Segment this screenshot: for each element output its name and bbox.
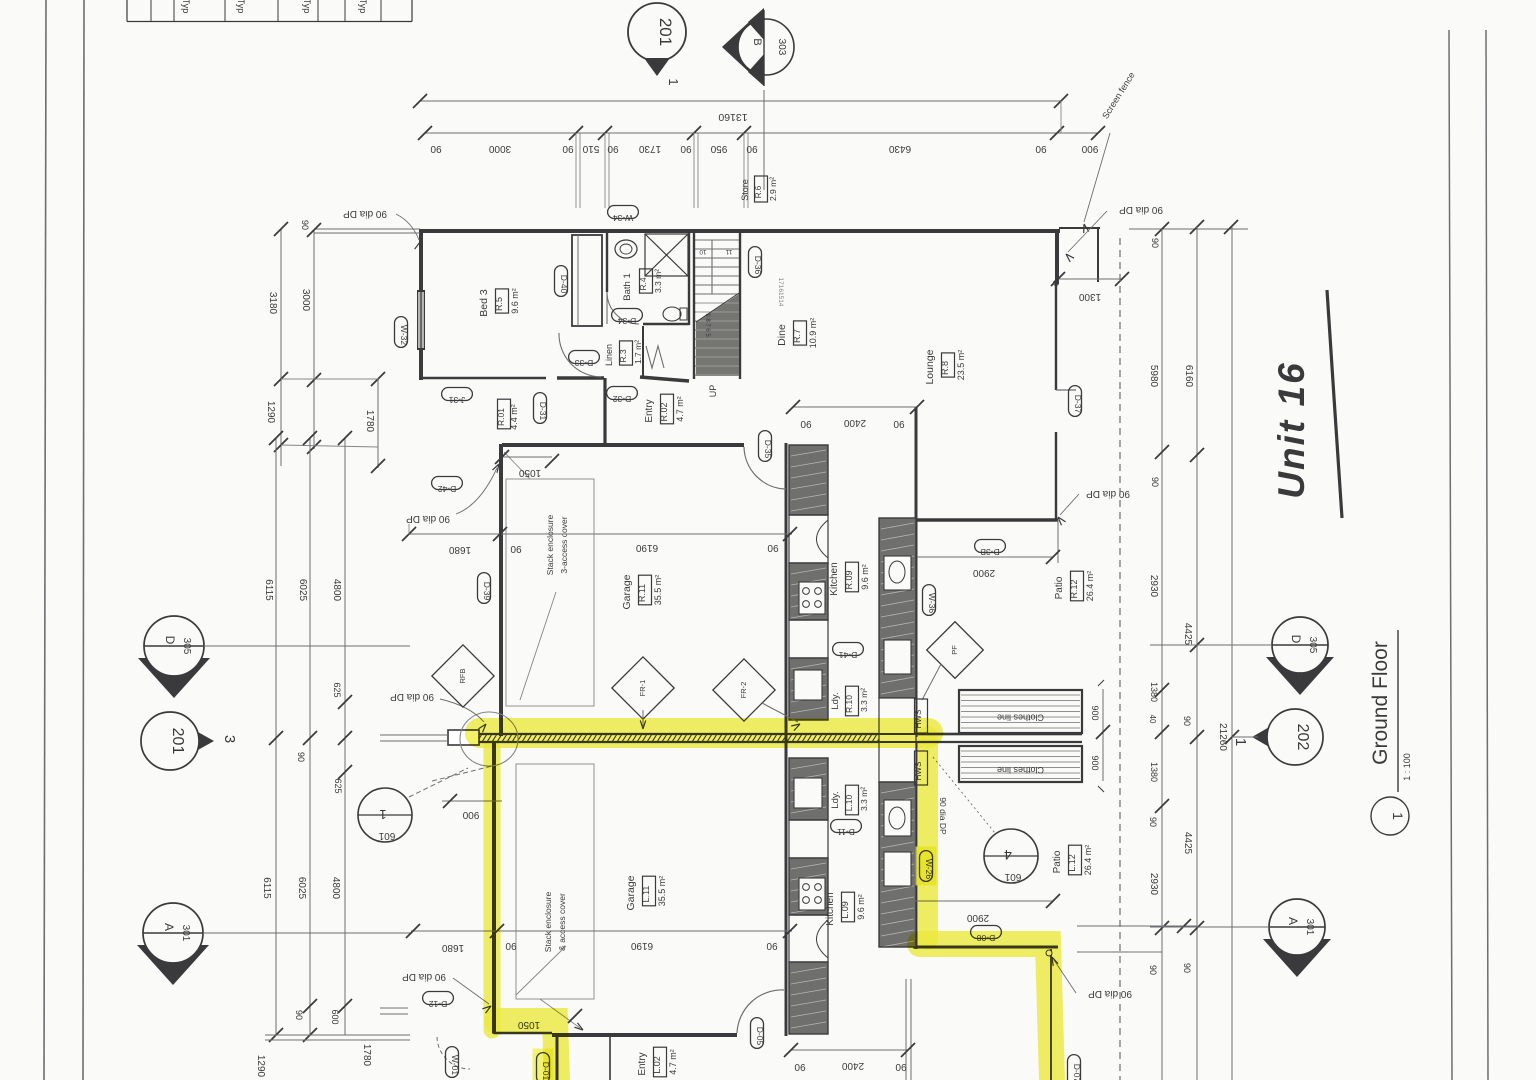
bath door arc xyxy=(607,292,639,324)
svg-text:90: 90 xyxy=(505,940,517,951)
svg-text:Entry: Entry xyxy=(644,399,655,422)
label W-06 oval yellow xyxy=(916,847,937,886)
left dim vertical 3000 xyxy=(313,230,315,449)
dashed screen fence vertical xyxy=(1119,392,1121,1080)
party wall double line with hatch xyxy=(448,733,1082,735)
svg-text:90: 90 xyxy=(1148,965,1158,975)
svg-text:90: 90 xyxy=(1150,238,1160,248)
wall garage R left x501 xyxy=(499,444,503,736)
wall lounge right x1057 upper xyxy=(1055,229,1059,284)
svg-text:90: 90 xyxy=(607,143,619,154)
svg-text:90 dia DP: 90 dia DP xyxy=(402,971,446,982)
label D-34 oval xyxy=(612,309,643,322)
marker D 305 left xyxy=(138,658,210,698)
svg-text:D-32: D-32 xyxy=(613,394,632,404)
kitchen L bench lower xyxy=(789,962,828,1034)
svg-text:90 dia DP: 90 dia DP xyxy=(1119,204,1163,215)
svg-text:3: 3 xyxy=(221,735,238,743)
svg-text:625: 625 xyxy=(333,778,343,793)
WC pan bath1 xyxy=(663,307,681,321)
label D-39 oval xyxy=(478,573,491,604)
svg-text:W-32: W-32 xyxy=(399,325,409,345)
svg-text:301: 301 xyxy=(1304,919,1315,936)
label HWS R xyxy=(915,699,928,733)
svg-text:4800: 4800 xyxy=(330,877,341,900)
wall top perimeter xyxy=(420,229,1060,233)
svg-text:9 8 7 6 5: 9 8 7 6 5 xyxy=(704,313,710,337)
label W-36 oval xyxy=(923,585,936,616)
wall WC strip lower right xyxy=(915,742,918,949)
svg-text:6115: 6115 xyxy=(261,877,272,899)
wall bath1 bottom xyxy=(643,323,689,325)
svg-text:Ground Floor: Ground Floor xyxy=(1369,641,1392,765)
wall entry-garage y445 xyxy=(502,443,744,447)
svg-text:3000: 3000 xyxy=(488,143,511,154)
stairs dark under-stair shading xyxy=(696,294,739,376)
svg-text:6430: 6430 xyxy=(888,143,911,154)
svg-text:Lounge: Lounge xyxy=(924,349,936,384)
wall patio L bottom y947 xyxy=(913,946,1058,949)
svg-text:900: 900 xyxy=(1090,755,1100,770)
svg-text:510: 510 xyxy=(582,143,599,154)
svg-text:A: A xyxy=(1286,917,1300,925)
svg-text:3180: 3180 xyxy=(267,292,278,315)
linen bifold doors xyxy=(646,346,664,368)
dimension 2900 patio R xyxy=(917,556,1053,558)
svg-text:UP: UP xyxy=(708,385,718,398)
revision cloud circle at party wall xyxy=(460,712,518,766)
party wall through clothesline x917-1082 xyxy=(917,733,1082,736)
label W-32 oval xyxy=(395,317,408,348)
wall bed3 left upper xyxy=(419,229,423,291)
page border line right outer xyxy=(1486,30,1488,1080)
svg-text:Typ: Typ xyxy=(181,0,191,13)
svg-text:D-12: D-12 xyxy=(429,999,448,1009)
right dim vertical 5980 xyxy=(1161,229,1163,1080)
svg-text:6190: 6190 xyxy=(635,542,658,553)
svg-text:Typ: Typ xyxy=(302,0,312,13)
svg-text:Stack enclosure: Stack enclosure xyxy=(545,514,555,575)
room label R.01 area xyxy=(498,399,511,429)
svg-text:950: 950 xyxy=(710,143,727,154)
label D-32 oval xyxy=(607,387,638,400)
svg-text:FR-2: FR-2 xyxy=(739,682,748,699)
stack enclosure rect garage R xyxy=(506,479,594,706)
svg-text:Dine: Dine xyxy=(776,324,788,346)
svg-text:90: 90 xyxy=(296,752,306,762)
yellow highlighter patio L wall D-08 xyxy=(920,944,1052,1080)
kitchen R sink bench gap xyxy=(789,515,828,563)
svg-text:3.3 m²: 3.3 m² xyxy=(653,269,663,293)
left dim bottom double line xyxy=(265,1034,410,1036)
wall kitchen-patio y520 xyxy=(914,518,1058,521)
svg-text:D-39: D-39 xyxy=(482,582,492,601)
svg-text:D-36: D-36 xyxy=(753,256,763,275)
svg-text:26.4 m²: 26.4 m² xyxy=(1083,845,1093,876)
stack enclosure leaders garage R xyxy=(504,452,530,479)
marker 202 1 right xyxy=(1252,718,1285,756)
stack enclosure rect garage L xyxy=(516,764,594,999)
svg-text:R.01: R.01 xyxy=(496,408,506,426)
svg-text:6115: 6115 xyxy=(263,579,274,601)
label D-37 oval xyxy=(1069,386,1082,417)
right dim tick row top xyxy=(1129,228,1248,230)
window W-32 in left wall xyxy=(418,291,425,349)
svg-text:PF: PF xyxy=(950,645,959,655)
svg-text:6190: 6190 xyxy=(630,940,653,951)
svg-text:90: 90 xyxy=(1148,817,1158,827)
clothes line R xyxy=(959,690,1082,733)
left dim vertical 1780 upper xyxy=(377,379,379,468)
label D-05 oval xyxy=(751,1018,764,1049)
svg-text:600: 600 xyxy=(330,1009,340,1024)
stairs treads xyxy=(695,240,739,375)
marker circle 1 601 xyxy=(358,788,412,842)
fence lines below patio L xyxy=(905,979,907,1080)
svg-text:L.09: L.09 xyxy=(840,901,850,919)
svg-text:Clothes line: Clothes line xyxy=(997,713,1044,723)
label D-42 oval xyxy=(432,477,463,490)
svg-text:RFB: RFB xyxy=(458,669,467,684)
svg-text:Kitchen: Kitchen xyxy=(829,562,840,595)
bottom right dim lines xyxy=(1077,925,1197,927)
svg-text:D-34: D-34 xyxy=(618,316,637,326)
svg-text:2400: 2400 xyxy=(843,417,866,428)
wall entry L right stub xyxy=(609,1035,611,1080)
svg-text:D-40: D-40 xyxy=(559,275,569,294)
svg-text:10.9 m²: 10.9 m² xyxy=(808,318,818,349)
bath basin xyxy=(615,240,637,258)
svg-text:W-34: W-34 xyxy=(613,213,633,223)
svg-text:9.6 m²: 9.6 m² xyxy=(860,564,870,590)
svg-text:FR-1: FR-1 xyxy=(638,680,647,697)
svg-text:3.3 m²: 3.3 m² xyxy=(859,787,869,811)
svg-text:D-31: D-31 xyxy=(538,402,548,421)
svg-text:Patio: Patio xyxy=(1052,850,1063,873)
svg-text:Typ: Typ xyxy=(358,0,368,13)
door arc D-05 entry L xyxy=(737,990,784,1033)
svg-text:13160: 13160 xyxy=(718,111,747,123)
svg-text:Bath 1: Bath 1 xyxy=(622,273,633,300)
yellow highlighter unit L garage wall xyxy=(484,748,501,1030)
marker circle 201 sheet ref xyxy=(628,3,686,61)
WC HWS strip upper xyxy=(879,518,916,698)
svg-text:B: B xyxy=(751,38,763,45)
diamond PF xyxy=(927,622,984,679)
svg-text:90: 90 xyxy=(746,143,758,154)
label D-11 oval xyxy=(831,820,862,833)
wall stairwell right x740 xyxy=(739,233,741,379)
underline of Unit 16 xyxy=(1327,290,1342,518)
yellow highlighter party wall xyxy=(480,733,1052,1080)
svg-text:90: 90 xyxy=(794,1061,806,1072)
dimension 900 garage door xyxy=(442,800,502,802)
svg-text:26.4 m²: 26.4 m² xyxy=(1085,571,1095,602)
svg-text:201: 201 xyxy=(169,728,186,755)
svg-text:1780: 1780 xyxy=(364,410,375,433)
kitchen R fridge gap xyxy=(789,620,828,658)
left dim vertical 3180 xyxy=(280,229,282,466)
svg-text:1.7 m²: 1.7 m² xyxy=(633,340,643,364)
screen fence leader xyxy=(1084,133,1110,222)
WC HWS strip lower xyxy=(879,782,916,947)
label D-41 oval xyxy=(833,643,864,656)
svg-text:4425: 4425 xyxy=(1182,623,1193,646)
kitchen L fridge gap xyxy=(789,820,828,858)
shower with X xyxy=(645,234,688,276)
svg-text:R.12: R.12 xyxy=(1069,579,1079,598)
stairs centre rail xyxy=(711,240,713,294)
svg-text:90 dia DP: 90 dia DP xyxy=(390,691,434,702)
svg-text:4800: 4800 xyxy=(331,579,342,602)
svg-text:90: 90 xyxy=(767,542,779,553)
svg-text:1: 1 xyxy=(1232,738,1249,746)
svg-text:900: 900 xyxy=(1090,705,1100,720)
kitchen L cooktop bench xyxy=(789,858,828,915)
left dim vertical 6115 xyxy=(275,438,277,1035)
HWS area white xyxy=(879,698,916,782)
svg-text:R.09: R.09 xyxy=(844,570,854,589)
handwritten Unit 16 xyxy=(1271,361,1312,498)
svg-text:D-42: D-42 xyxy=(438,484,457,494)
label D-01 oval yellow xyxy=(533,1049,554,1080)
svg-text:6025: 6025 xyxy=(296,877,307,900)
svg-text:R.6: R.6 xyxy=(754,185,763,198)
svg-text:Garage: Garage xyxy=(621,574,633,609)
kitchen R bench upper xyxy=(789,445,828,515)
svg-text:900: 900 xyxy=(462,809,479,820)
svg-text:900: 900 xyxy=(1081,143,1098,154)
svg-text:90: 90 xyxy=(1035,143,1047,154)
svg-text:1 : 100: 1 : 100 xyxy=(1402,753,1412,781)
right dim vertical 6160 xyxy=(1196,227,1198,1080)
right dim vertical 900 clothesline xyxy=(1102,689,1104,781)
svg-text:4425: 4425 xyxy=(1182,832,1193,855)
wall bed3 left lower xyxy=(419,349,423,380)
title circle 1 xyxy=(1371,797,1409,835)
svg-text:2400: 2400 xyxy=(841,1060,864,1071)
svg-text:3000: 3000 xyxy=(300,289,311,312)
left dim vertical 4800 xyxy=(344,438,346,1035)
page border line left outer xyxy=(44,0,46,1080)
dashed diagonal garage L corner xyxy=(432,766,492,781)
kitchen L sink bench gap xyxy=(789,915,828,962)
diamond RFB xyxy=(432,645,494,707)
wall bath1 left x607 xyxy=(606,233,608,292)
fence line left of building top xyxy=(314,228,420,230)
svg-text:90: 90 xyxy=(800,418,812,429)
schedule table fragment xyxy=(127,0,412,22)
svg-text:Garage: Garage xyxy=(625,875,637,910)
label D-36 oval xyxy=(749,247,762,278)
title underline xyxy=(1397,630,1399,792)
dashed leader to circle 1-601 xyxy=(409,768,468,797)
svg-text:2930: 2930 xyxy=(1148,575,1159,598)
door leaf D-37 gap xyxy=(1056,389,1076,391)
wall kitchen strip right x916 xyxy=(915,407,918,737)
svg-text:L.10: L.10 xyxy=(844,794,854,811)
wall bed3 bottom y378 xyxy=(421,377,546,380)
svg-text:D-35: D-35 xyxy=(763,440,773,459)
svg-text:L.11: L.11 xyxy=(641,886,651,903)
svg-text:9.6 m²: 9.6 m² xyxy=(856,894,866,920)
dimension chain line top xyxy=(425,132,1098,134)
clothes line L xyxy=(959,746,1082,782)
wall garage L left x494 xyxy=(492,741,496,1033)
svg-text:D-33: D-33 xyxy=(575,358,594,368)
svg-text:A: A xyxy=(162,923,176,931)
svg-text:Stack enclosure: Stack enclosure xyxy=(543,891,553,952)
wall linen bottom / dine edge y378 xyxy=(640,377,689,381)
svg-text:Store: Store xyxy=(740,179,750,201)
door arc D-35 entry xyxy=(744,447,786,489)
svg-text:Kitchen: Kitchen xyxy=(825,892,836,925)
party wall overlay across HWS strip xyxy=(860,733,1082,735)
left dim vertical 6025 xyxy=(309,438,311,1035)
svg-text:23.5 m²: 23.5 m² xyxy=(956,350,966,381)
svg-text:6025: 6025 xyxy=(297,579,308,602)
svg-text:301: 301 xyxy=(180,925,191,942)
dimension 2900 patio L xyxy=(913,900,1053,902)
svg-text:40: 40 xyxy=(1148,715,1157,724)
svg-text:90: 90 xyxy=(1182,963,1192,973)
svg-text:R.7: R.7 xyxy=(792,329,802,343)
svg-text:1: 1 xyxy=(666,78,681,85)
svg-text:R.10: R.10 xyxy=(844,695,854,713)
svg-text:W-36: W-36 xyxy=(927,593,937,613)
yellow highlighter HWS wall down xyxy=(918,736,938,940)
svg-text:D-41: D-41 xyxy=(839,650,858,660)
svg-text:303: 303 xyxy=(776,39,787,56)
leader line from marker B down to store xyxy=(763,90,765,190)
svg-text:90: 90 xyxy=(1182,716,1192,726)
svg-text:Typ: Typ xyxy=(236,0,246,13)
svg-text:90 dia DP: 90 dia DP xyxy=(1086,488,1130,499)
svg-text:1380: 1380 xyxy=(1149,762,1159,782)
svg-text:1680: 1680 xyxy=(448,544,471,555)
door arc D-12 xyxy=(437,1037,470,1069)
svg-text:& access cover: & access cover xyxy=(557,893,567,951)
svg-text:90 dia DP: 90 dia DP xyxy=(343,208,387,219)
label D-33 oval xyxy=(569,351,600,364)
svg-text:3.3 m²: 3.3 m² xyxy=(859,688,869,712)
svg-text:Patio: Patio xyxy=(1054,576,1065,599)
wall kitchen strip left x786 xyxy=(785,443,788,1036)
svg-text:D-11: D-11 xyxy=(837,827,855,837)
svg-text:601: 601 xyxy=(1004,871,1021,882)
dimension 1300 xyxy=(1058,278,1122,280)
dimension 2400 kitchen R xyxy=(793,406,917,408)
label D-12 oval xyxy=(423,992,454,1005)
label D-31 oval xyxy=(534,393,547,424)
door arc D-33 xyxy=(559,333,601,377)
marker A 301 right xyxy=(1263,939,1331,977)
dimension 2400 kitchen L xyxy=(791,1049,908,1051)
svg-text:90: 90 xyxy=(895,1061,907,1072)
svg-text:90 dia DP: 90 dia DP xyxy=(1088,988,1132,999)
svg-text:1380: 1380 xyxy=(1149,682,1159,702)
svg-text:90: 90 xyxy=(430,143,442,154)
svg-text:D-37: D-37 xyxy=(1073,395,1083,414)
label W-01 oval xyxy=(446,1047,459,1078)
svg-text:D: D xyxy=(163,636,177,645)
wall stairwell left x694 xyxy=(693,233,695,379)
svg-text:625: 625 xyxy=(332,682,342,697)
svg-text:6160: 6160 xyxy=(1183,365,1194,388)
svg-text:1300: 1300 xyxy=(1078,291,1101,302)
svg-text:D-05: D-05 xyxy=(755,1027,765,1046)
svg-text:90: 90 xyxy=(294,1010,304,1020)
label D-07 oval xyxy=(1068,1055,1081,1080)
svg-text:5980: 5980 xyxy=(1148,365,1159,388)
svg-text:1680: 1680 xyxy=(441,942,464,953)
svg-text:305: 305 xyxy=(181,638,192,655)
svg-text:2900: 2900 xyxy=(966,912,989,923)
dimension 1050 entry R xyxy=(502,456,552,458)
svg-text:R.3: R.3 xyxy=(618,349,628,363)
svg-text:1: 1 xyxy=(379,807,386,822)
svg-text:4.4 m²: 4.4 m² xyxy=(509,404,519,430)
svg-text:2900: 2900 xyxy=(972,567,995,578)
svg-text:2.9 m²: 2.9 m² xyxy=(768,177,778,201)
svg-text:90: 90 xyxy=(893,418,905,429)
svg-text:90: 90 xyxy=(510,543,522,554)
svg-text:3-access cover: 3-access cover xyxy=(559,516,569,573)
svg-text:R.8: R.8 xyxy=(940,361,950,375)
wall garage L bottom y1034 xyxy=(493,1031,496,1034)
label D-35 oval top xyxy=(759,431,772,462)
svg-text:10: 10 xyxy=(699,248,707,255)
marker circle 4 601 xyxy=(984,829,1038,883)
svg-text:D-07: D-07 xyxy=(1072,1064,1082,1080)
kitchen R cooktop bench xyxy=(789,563,828,620)
svg-text:Bed 3: Bed 3 xyxy=(478,289,490,317)
svg-text:R.5: R.5 xyxy=(494,297,504,311)
yellow highlighter unit L entry jog xyxy=(497,1021,557,1080)
svg-text:305: 305 xyxy=(1307,637,1318,654)
party wall left stub outline xyxy=(448,730,479,745)
diamond FR-1 xyxy=(612,657,674,719)
svg-text:9.6 m²: 9.6 m² xyxy=(510,288,520,314)
marker A 301 left xyxy=(137,945,209,985)
svg-text:35.5 m²: 35.5 m² xyxy=(653,575,663,606)
svg-text:11: 11 xyxy=(725,248,732,255)
svg-text:1: 1 xyxy=(1390,812,1406,820)
svg-text:Ldy.: Ldy. xyxy=(830,692,841,709)
dimension garage R width y534 xyxy=(409,533,792,535)
dimension line 13160 xyxy=(420,100,1061,102)
page border line right inner xyxy=(1449,30,1452,1080)
svg-text:4.7 m²: 4.7 m² xyxy=(668,1049,678,1075)
wall bath1 right x689 xyxy=(688,233,690,325)
svg-text:W-01: W-01 xyxy=(450,1055,460,1075)
svg-text:1780: 1780 xyxy=(361,1044,372,1067)
svg-text:Entry: Entry xyxy=(637,1052,648,1075)
fence line left of party wall xyxy=(380,734,448,736)
svg-text:90: 90 xyxy=(1150,477,1160,487)
label D-3B oval xyxy=(975,540,1006,553)
label HWS L xyxy=(915,751,928,785)
svg-text:2930: 2930 xyxy=(1148,873,1159,896)
robe cupboard bed3 xyxy=(572,235,602,326)
svg-text:90: 90 xyxy=(766,940,778,951)
svg-text:D: D xyxy=(1289,635,1303,644)
label J-31 oval xyxy=(442,388,473,401)
wall hall vertical x604 xyxy=(603,378,606,446)
stack enclosure leaders garage L xyxy=(540,999,580,1028)
svg-text:4.7 m²: 4.7 m² xyxy=(675,396,685,422)
svg-text:90: 90 xyxy=(680,143,692,154)
